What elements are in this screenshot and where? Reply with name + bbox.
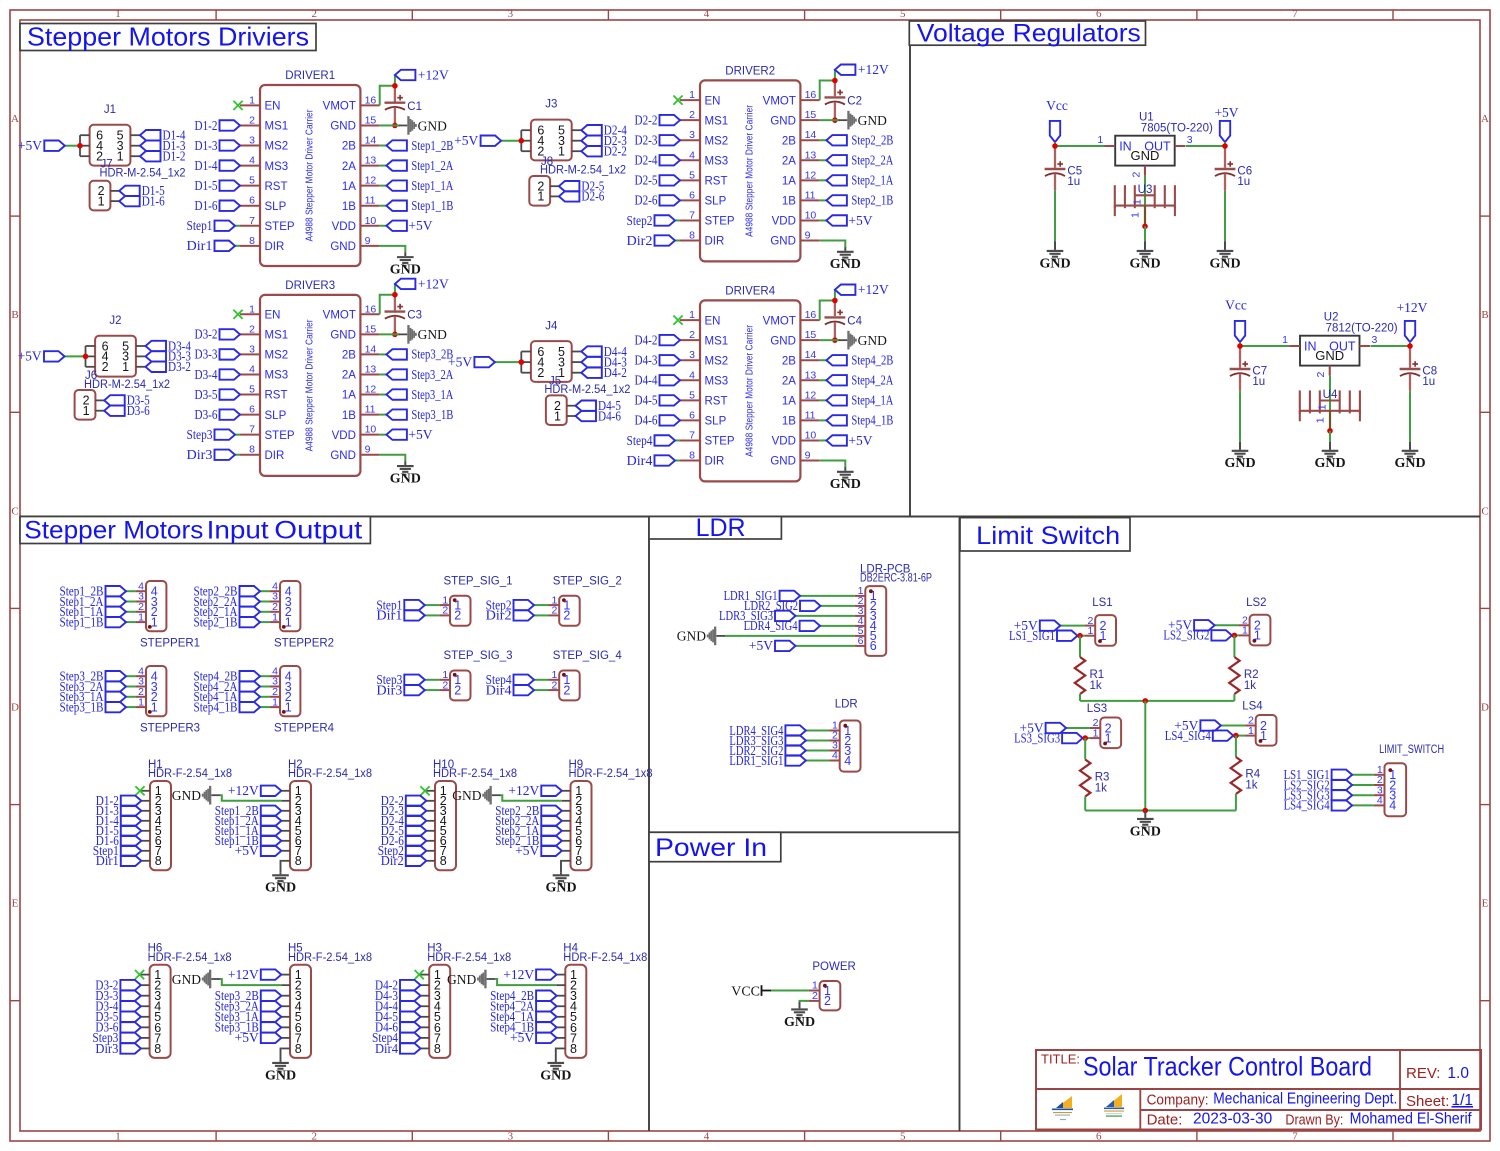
pin 2 MS1 of DRIVER3 [240,323,288,341]
svg-text:RST: RST [705,176,728,188]
pin 7 stub of H4 [557,1037,566,1039]
svg-text:Mechanical Engineering Dept.: Mechanical Engineering Dept. [1213,1091,1397,1108]
wire [260,675,270,677]
wire ground to LDR-PCB pin 5 [725,635,855,637]
pin 4 stub of H10 [426,820,435,822]
wire POWER pin 2 to ground [800,1001,809,1002]
pin 7 stub of H1 [141,850,150,852]
svg-text:1: 1 [1130,212,1142,218]
capacitor C6 [1215,146,1253,191]
svg-text:Step2_2B: Step2_2B [851,133,893,148]
svg-text:1: 1 [138,696,144,708]
wire [1060,625,1084,627]
ground symbol at limit switch network [1130,811,1161,840]
svg-text:+12V: +12V [228,783,259,798]
svg-text:8: 8 [575,854,582,868]
ground symbol into H5 pin 2 [172,970,220,989]
svg-text:B: B [1481,309,1488,321]
pin stub row 0 of J8 [550,185,559,187]
capacitor C4 [825,301,863,341]
svg-text:GND: GND [770,115,796,127]
svg-text:2: 2 [454,609,461,623]
svg-text:Step2_1B: Step2_1B [194,614,238,629]
pin 2 stub of LS1 [1085,625,1096,627]
svg-text:6: 6 [1096,1131,1102,1143]
pin stubs row 2 of J2 [86,366,96,368]
svg-text:STEP: STEP [265,221,295,233]
svg-text:Sheet:: Sheet: [1406,1093,1449,1110]
svg-text:LS4: LS4 [1242,700,1263,712]
wire [534,679,549,681]
svg-text:1: 1 [1248,725,1254,737]
svg-text:D2-6: D2-6 [635,193,658,208]
pin 1 EN of DRIVER2 [680,89,720,107]
pin 5 stub of H3 [421,1016,430,1018]
net flag D3-2 into H6 pin 2 [95,977,140,992]
net flag Step2_1B from DRIVER2 pin 11 [820,193,894,208]
svg-text:+12V: +12V [1397,300,1428,315]
wire C6 to ground [1224,191,1226,241]
svg-text:D1-5: D1-5 [195,178,218,193]
no-connect flag on DRIVER2 EN pin [673,96,682,105]
svg-text:10: 10 [365,424,377,436]
svg-text:1.0: 1.0 [1447,1065,1469,1082]
net flag Step2_2A into H9 pin 4 [495,813,562,828]
wire [425,614,440,616]
svg-text:1: 1 [249,94,255,106]
svg-text:GND: GND [418,327,447,342]
connector LIMIT_SWITCH (4-pin) [1374,744,1444,816]
svg-text:SLP: SLP [705,196,727,208]
svg-text:GND: GND [330,330,356,342]
svg-text:D3-2: D3-2 [195,327,218,342]
pin 10 VDD of DRIVER2 [772,209,820,227]
svg-text:GND: GND [452,788,481,803]
ground symbol at DRIVER3 pin 15 [395,325,447,344]
svg-text:DIR: DIR [265,450,285,462]
pin stub row 0 of J5 [567,405,576,407]
svg-text:HDR-F-2.54_1x8: HDR-F-2.54_1x8 [288,768,372,780]
net flag Step2_2B from DRIVER2 pin 14 [820,133,894,148]
power flag +5V into H9 pin 7 [515,843,562,858]
pin stub row 1 of J8 [550,195,559,197]
svg-text:3: 3 [249,343,255,355]
power flag +12V into H2 pin 1 [228,783,281,798]
svg-text:LS4_SIG4: LS4_SIG4 [1165,728,1211,743]
pin 8 stub of H1 [141,860,150,862]
svg-text:Step4: Step4 [627,433,653,448]
net flag Step1_2A into STEPPER1 [60,594,137,609]
svg-text:+12V: +12V [858,62,889,77]
bracket wire left of J2 [85,346,87,367]
svg-text:Dir3: Dir3 [95,1041,118,1056]
svg-text:STEP: STEP [705,216,735,228]
wire [235,454,240,456]
wire [820,379,827,381]
connector H10 (HDR-F-2.54_1x8) [426,759,517,870]
svg-text:1u: 1u [1422,376,1435,388]
svg-text:D2-6: D2-6 [581,189,604,204]
svg-text:1: 1 [285,700,292,714]
no-connect flag on H10 pin 1 [420,786,429,795]
net flag D3-5 into H6 pin 5 [95,1009,140,1024]
svg-text:GND: GND [447,972,476,987]
pin 1 stub of H2 [281,790,290,792]
wire [380,185,387,187]
connector H9 (HDR-F-2.54_1x8) [562,759,653,870]
junction below U4 [1327,428,1333,434]
svg-text:D2-2: D2-2 [604,144,627,159]
svg-text:A4988 Stepper Motor Driver Car: A4988 Stepper Motor Driver Carrier [304,319,316,451]
pin 1 stub of H4 [557,974,566,976]
svg-text:1: 1 [138,611,144,623]
svg-text:LIMIT_SWITCH: LIMIT_SWITCH [1379,744,1444,756]
svg-text:15: 15 [365,323,377,335]
heatsink U3 [1115,184,1175,218]
wire H4 pin 8 to ground [555,1048,558,1060]
net flag LS1_SIG1 into LS1 pin 1 [1009,628,1085,643]
wire [820,219,827,221]
net flag D1-5 from J7 [119,183,165,198]
wire [380,434,387,436]
net flag D2-2 to DRIVER2 pin 2 [635,112,681,127]
svg-text:MS2: MS2 [705,355,729,367]
svg-text:2: 2 [1315,372,1327,378]
svg-text:1: 1 [1097,134,1103,146]
svg-text:8: 8 [434,1042,441,1056]
net flag Step2 to DRIVER2 pin 7 [627,213,681,228]
pin 15 GND of DRIVER4 [770,329,819,347]
ground symbol at H5 pin 8 [265,1060,296,1083]
net flag LS3_SIG3 into LS3 pin 1 [1014,730,1090,745]
wire R3 to lower bus [1084,797,1086,811]
svg-text:1B: 1B [342,201,356,213]
wire [380,205,387,207]
wire [380,145,387,147]
pin 5 stub of H4 [557,1016,566,1018]
wire [1233,735,1245,737]
capacitor C1 [385,86,423,126]
svg-text:8: 8 [295,1042,302,1056]
net flag Step2_1B into H9 pin 6 [495,833,562,848]
svg-text:D4-2: D4-2 [604,365,627,380]
pin 3 stub of LDR [829,750,840,752]
net flag Step4_2B into H4 pin 3 [490,988,557,1003]
svg-text:4: 4 [1377,795,1383,807]
svg-text:MS2: MS2 [265,141,289,153]
wire [380,225,387,227]
pin stubs row 2 of J3 [521,150,531,152]
power flag +5V into H2 pin 7 [235,843,282,858]
net flag Step4_1A into H4 pin 5 [490,1009,557,1024]
svg-text:+12V: +12V [228,967,259,982]
svg-text:GND: GND [540,1068,571,1083]
net flag D2-6 to DRIVER2 pin 6 [635,193,681,208]
pin 4 stub of STEPPER1 [136,590,146,592]
svg-text:HDR-M-2.54_1x2: HDR-M-2.54_1x2 [540,164,626,176]
svg-text:GND: GND [1314,456,1345,471]
wire [820,159,827,161]
svg-text:7: 7 [249,215,255,227]
svg-text:D1-4: D1-4 [195,158,218,173]
svg-text:15: 15 [805,109,817,121]
net flag D4-5 into H3 pin 5 [375,1009,421,1024]
wire LS3 node to resistor R3 [1084,738,1086,759]
svg-text:LDR4_SIG4: LDR4_SIG4 [744,618,798,633]
svg-text:1A: 1A [782,176,796,188]
wire [796,645,855,647]
pin 2 stub of H9 [562,800,571,802]
svg-text:1: 1 [1093,727,1099,739]
connector J1 (2x3 header) [80,104,140,166]
wire [394,284,396,295]
svg-text:GND: GND [172,788,201,803]
net flag D3-3 into H6 pin 3 [95,988,140,1003]
svg-text:DRIVER3: DRIVER3 [285,280,335,292]
svg-text:8: 8 [440,854,447,868]
pin 3 stub of U1 [1175,145,1186,147]
net flag D3-3 to DRIVER3 pin 3 [195,347,241,362]
svg-text:D1-2: D1-2 [195,118,218,133]
wire [820,179,827,181]
net flag Step1_2B into H2 pin 3 [215,803,282,818]
svg-text:7: 7 [689,209,695,221]
connector J2 (2x3 header) [86,315,146,377]
svg-text:7: 7 [689,429,695,441]
svg-text:+12V: +12V [508,783,539,798]
junction at center of upper bus [1143,698,1149,704]
svg-text:+5V: +5V [848,213,872,228]
pin 3 stub of H4 [557,995,566,997]
svg-text:U3: U3 [1138,184,1153,196]
net flag D3-4 into H6 pin 4 [95,999,140,1014]
pin 1 marker dot of POWER [823,984,827,988]
wire GND pin9 of DRIVER3 [380,455,406,462]
power flag +12V into H9 pin 1 [508,783,561,798]
net flag D4-4 to DRIVER4 pin 4 [635,373,681,388]
junction at LS3 signal node [1082,735,1088,741]
svg-text:Dir1: Dir1 [376,608,402,623]
net flag D3-5 to DRIVER3 pin 5 [195,387,241,402]
svg-text:Dir1: Dir1 [96,853,119,868]
svg-text:+12V: +12V [418,276,449,291]
wire [1239,342,1241,346]
svg-text:GND: GND [545,881,576,896]
svg-text:1B: 1B [782,416,796,428]
net flag Dir1 to DRIVER1 pin 8 [187,238,241,253]
pin 3 stub of H2 [281,810,290,812]
svg-text:8: 8 [249,235,255,247]
power flag +5V into J1 [18,138,80,153]
wire [126,706,136,708]
svg-text:6: 6 [858,635,864,647]
svg-text:2: 2 [563,609,570,623]
svg-text:+5V: +5V [1214,105,1238,120]
pin 5 RST of DRIVER1 [240,175,288,193]
power flag +5V into J4 [448,354,521,369]
net flag Dir2 into H10 pin 8 [381,853,427,868]
pin stubs row 1 of J4 [521,361,531,363]
pin 4 stub of H3 [421,1005,430,1007]
svg-text:STEPPER2: STEPPER2 [274,637,334,649]
svg-text:10: 10 [805,209,817,221]
svg-text:D4-4: D4-4 [635,373,658,388]
wire H2 pin 8 to ground [280,861,283,873]
svg-text:MS3: MS3 [705,155,729,167]
svg-text:12: 12 [365,384,377,396]
pin 3 stub of STEPPER4 [270,686,280,688]
pin 1 marker dot of LS4 [1259,739,1263,743]
wire [820,625,855,627]
net flag Step4 into H3 pin 7 [372,1030,421,1045]
svg-text:D3-6: D3-6 [127,403,150,418]
svg-text:HDR-F-2.54_1x8: HDR-F-2.54_1x8 [148,952,232,964]
pin 3 MS2 of DRIVER1 [240,135,288,153]
net flag D4-3 from J4 [581,354,627,369]
svg-text:VDD: VDD [772,216,796,228]
net flag Step1_2A into H2 pin 4 [215,813,282,828]
pin 1 stub of LIMIT_SWITCH [1374,774,1385,776]
svg-text:VDD: VDD [332,221,356,233]
pin 3 stub of STEPPER2 [270,601,280,603]
company logo 1 [1052,1096,1073,1120]
no-connect flag on H6 pin 1 [135,970,144,979]
power flag +5V into LS4 pin 2 [1174,718,1245,733]
svg-text:+5V: +5V [235,1030,259,1045]
svg-text:GND: GND [330,121,356,133]
pin 1 stub of STEP_SIG_2 [549,604,560,606]
svg-text:2B: 2B [342,141,356,153]
pin 1 stub of STEP_SIG_4 [549,679,560,681]
power flag +12V at U2 output [1397,300,1428,346]
net flag Step3 to DRIVER3 pin 7 [187,427,241,442]
net flag D3-4 to DRIVER3 pin 4 [195,367,241,382]
power flag Vcc at U2 input [1225,298,1247,347]
net flag D3-2 to DRIVER3 pin 2 [195,327,241,342]
net flag D1-3 to DRIVER1 pin 3 [195,138,241,153]
svg-text:4: 4 [249,155,255,167]
svg-text:C: C [11,505,18,517]
pin 6 SLP of DRIVER4 [680,409,727,427]
pin 3 MS2 of DRIVER2 [680,129,728,147]
svg-text:Mohamed El-Sherif: Mohamed El-Sherif [1350,1111,1473,1128]
net flag Step3 into H6 pin 7 [92,1030,140,1045]
ground symbol at DRIVER1 pin 9 [390,252,421,277]
pin 8 stub of H4 [557,1047,566,1049]
pin 4 MS3 of DRIVER3 [240,363,288,381]
pin 5 stub of H6 [141,1016,150,1018]
svg-text:GND: GND [784,1015,815,1030]
connector LS2 (2-pin limit switch) [1239,597,1270,645]
svg-text:16: 16 [365,94,377,106]
wire [534,614,549,616]
svg-text:MS1: MS1 [705,335,729,347]
svg-text:13: 13 [365,155,377,167]
svg-text:6: 6 [689,189,695,201]
resistor R3 [1080,760,1109,797]
svg-text:4: 4 [704,1131,710,1143]
svg-text:HDR-F-2.54_1x8: HDR-F-2.54_1x8 [148,768,232,780]
svg-text:8: 8 [295,854,302,868]
wire [260,601,270,603]
pin 7 STEP of DRIVER2 [680,209,735,227]
wire [1078,635,1085,637]
net flag LS4_SIG4 into LS4 pin 1 [1165,728,1245,743]
net flag D4-5 to DRIVER4 pin 5 [635,393,681,408]
svg-text:Stepper Motors Driviers: Stepper Motors Driviers [27,21,309,51]
wire [820,359,827,361]
net flag Step1_1A into STEPPER1 [60,604,137,619]
pin 6 SLP of DRIVER2 [680,189,727,207]
svg-text:Step1_1B: Step1_1B [411,198,453,213]
pin stubs row 1 of J2 [86,355,96,357]
wire [126,686,136,688]
pin 7 stub of H10 [426,850,435,852]
svg-text:5: 5 [689,389,695,401]
pin 3 stub of H1 [141,810,150,812]
wire [380,165,387,167]
bracket wire left of J4 [520,352,522,373]
wire [534,689,549,691]
pin 1 stub of LS1 [1085,635,1096,637]
svg-text:D: D [11,702,19,714]
svg-text:GND: GND [330,241,356,253]
pin 1 EN of DRIVER1 [240,94,280,112]
voltage regulator U2 7812(TO-220) [1282,312,1398,378]
wire [501,140,521,142]
net flag Dir4 into STEP_SIG_4 [486,682,549,697]
pin 1 marker dot of STEP_SIG_1 [453,598,457,602]
ground symbol below C8 [1394,442,1425,471]
pin 1 stub of H3 [421,974,430,976]
pin 2 stub of LS2 [1239,624,1250,626]
net flag Dir4 to DRIVER4 pin 8 [627,453,681,468]
net flag Step1_1B into H2 pin 6 [215,833,282,848]
svg-text:DIR: DIR [705,456,725,468]
svg-text:Dir3: Dir3 [376,682,402,697]
pin 4 stub of LDR [829,760,840,762]
power flag Vcc at U1 input [1046,98,1068,146]
net flag D4-2 into H3 pin 2 [375,977,421,992]
pin 2 stub of H3 [421,984,430,986]
svg-text:1A: 1A [342,390,356,402]
svg-text:DRIVER4: DRIVER4 [725,286,775,298]
pin 1 marker dot of STEP_SIG_4 [562,673,566,677]
connector J8 (1x2 header) [529,156,626,206]
capacitor C5 [1045,146,1083,191]
svg-text:+5V: +5V [749,638,773,653]
ground symbol at POWER pin 2 [784,1002,815,1030]
svg-text:7: 7 [1292,8,1298,20]
power flag +5V into LDR-PCB pin 6 [749,638,855,653]
no-connect flag on H3 pin 1 [415,970,424,979]
svg-text:C: C [1481,505,1488,517]
pin 13 2A of DRIVER1 [342,155,380,173]
svg-text:D1-6: D1-6 [195,198,218,213]
net flag D1-2 from J1 [140,149,186,164]
net flag D2-4 from J3 [581,123,627,138]
svg-text:STEPPER1: STEPPER1 [140,637,200,649]
wire [126,590,136,592]
net flag D1-6 from J7 [119,193,165,208]
svg-text:Date:: Date: [1147,1111,1183,1128]
svg-text:Company:: Company: [1147,1091,1209,1108]
wire VCC to POWER pin 1 [771,990,809,992]
pin 1 stub of U1 [1105,145,1116,147]
net flag Step3_1A into H5 pin 5 [215,1009,282,1024]
svg-text:STEP_SIG_2: STEP_SIG_2 [553,575,622,587]
svg-text:Vcc: Vcc [1046,98,1068,113]
